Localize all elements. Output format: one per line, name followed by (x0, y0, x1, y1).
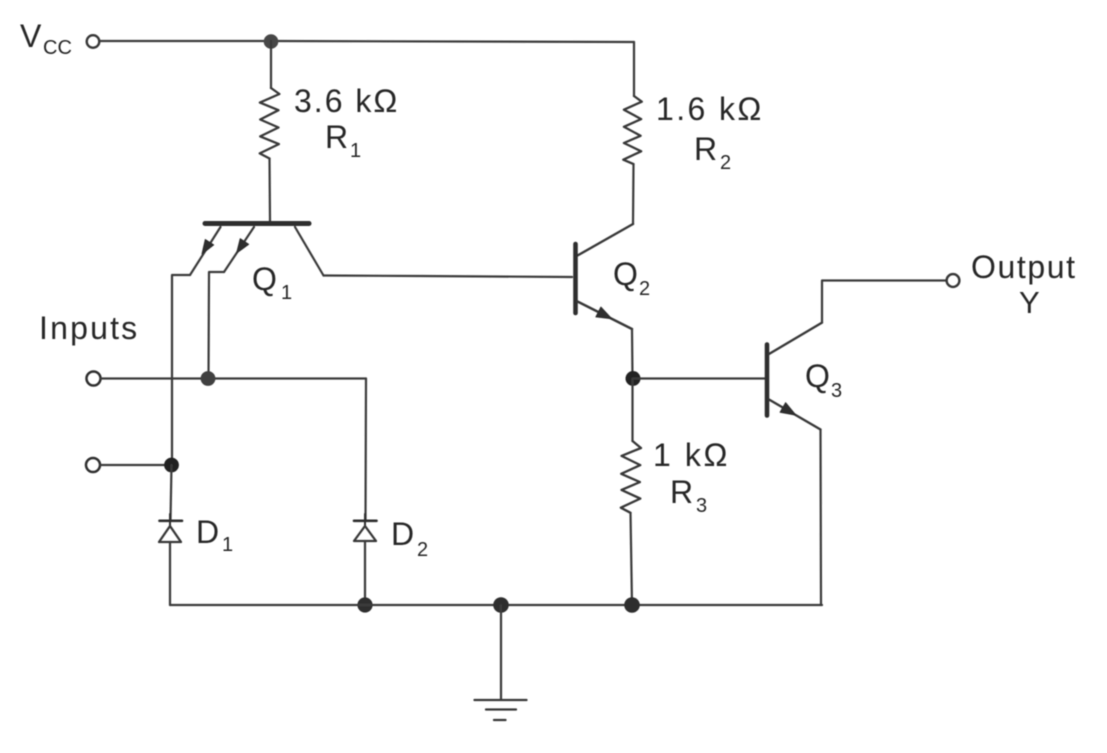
svg-text:V: V (20, 18, 42, 54)
svg-text:Output: Output (971, 249, 1077, 285)
arrow emitter 2 (237, 239, 249, 253)
svg-text:3.6 kΩ: 3.6 kΩ (294, 83, 399, 119)
wire D1 to rail (169, 542, 171, 605)
svg-text:R: R (325, 119, 348, 155)
arrow emitter 1 (202, 240, 214, 255)
transistor Q1 emitter 1 (190, 227, 221, 275)
svg-text:3: 3 (696, 495, 707, 517)
wire Q3 collector to output (822, 281, 946, 323)
svg-text:1: 1 (281, 282, 292, 304)
terminal output (947, 274, 960, 287)
wire input B line (100, 464, 171, 466)
resistor R1 (260, 88, 280, 159)
svg-text:R: R (694, 131, 717, 167)
svg-text:D: D (391, 516, 414, 552)
node Vcc-R1 junction (264, 34, 279, 49)
node input A junction (201, 371, 216, 386)
svg-text:1: 1 (222, 534, 233, 556)
svg-text:3: 3 (831, 380, 842, 402)
wire bottom rail (170, 604, 822, 606)
wire top rail Vcc (100, 41, 634, 42)
svg-text:2: 2 (417, 539, 428, 561)
svg-text:R: R (670, 474, 693, 510)
svg-text:Inputs: Inputs (39, 310, 139, 346)
ground (475, 699, 527, 701)
diode D2 cathode tick (364, 514, 366, 526)
svg-text:Y: Y (1019, 285, 1040, 320)
wire R1 to Q1 base (268, 159, 271, 222)
svg-text:Q: Q (805, 358, 830, 394)
node R3-rail junction (624, 597, 640, 613)
svg-text:1 kΩ: 1 kΩ (653, 437, 730, 473)
node input B junction (164, 458, 179, 473)
wire Vcc to R1 (270, 41, 272, 88)
transistor Q1 emitter 2 (224, 227, 254, 272)
transistor Q2 collector diagonal (578, 224, 634, 256)
terminal input A (87, 372, 101, 386)
wire junction to Q3 base (633, 377, 765, 379)
diode D2 triangle (354, 526, 376, 541)
transistor Q1 (multi-emitter) base bar (205, 221, 309, 226)
wire ground stem (500, 605, 502, 700)
svg-text:CC: CC (43, 37, 72, 59)
resistor R2 (623, 96, 642, 164)
diode D2 cathode bar (354, 519, 377, 522)
svg-text:Q: Q (252, 261, 277, 297)
terminal input B (86, 458, 100, 472)
svg-text:2: 2 (720, 152, 731, 174)
node ground junction (493, 597, 509, 613)
node phase-splitter junction (626, 371, 641, 386)
wire Q1 emitter 1 to input B node (172, 275, 190, 465)
wire top rail to R2 (633, 42, 635, 96)
wire D2 to rail (364, 541, 366, 605)
svg-text:1.6 kΩ: 1.6 kΩ (656, 91, 764, 127)
node D2-rail junction (357, 597, 372, 612)
wire input B to D1 (171, 465, 172, 520)
svg-text:D: D (196, 514, 219, 550)
wire R3 to rail (631, 513, 633, 605)
terminal Vcc (87, 35, 100, 48)
diode D1 cathode tick (169, 514, 171, 526)
transistor Q1 collector (295, 227, 324, 276)
wire Q3 emitter to rail (819, 430, 822, 606)
transistor Q2 bar (573, 244, 578, 313)
svg-text:1: 1 (350, 140, 361, 162)
diode D1 cathode bar (160, 519, 183, 522)
wire Q1 emitter 2 to input A node (209, 272, 225, 378)
diode D1 triangle (159, 526, 181, 542)
wire Q2 emitter down (631, 329, 634, 379)
transistor Q2 emitter (578, 302, 633, 330)
svg-text:2: 2 (639, 278, 650, 300)
wire junction to R3 (631, 379, 633, 442)
resistor R3 (621, 441, 641, 513)
transistor Q3 bar (765, 345, 770, 416)
svg-text:Q: Q (613, 256, 638, 292)
arrow Q3 emitter (780, 403, 796, 415)
transistor Q3 emitter (769, 400, 821, 430)
arrow Q2 emitter (596, 307, 612, 319)
wire input A to D2 (364, 379, 367, 521)
wire R2 to Q2 collector (632, 164, 635, 224)
wire input A line (101, 377, 367, 379)
wire Q1 collector to Q2 base (324, 276, 573, 278)
transistor Q3 collector (769, 323, 822, 354)
